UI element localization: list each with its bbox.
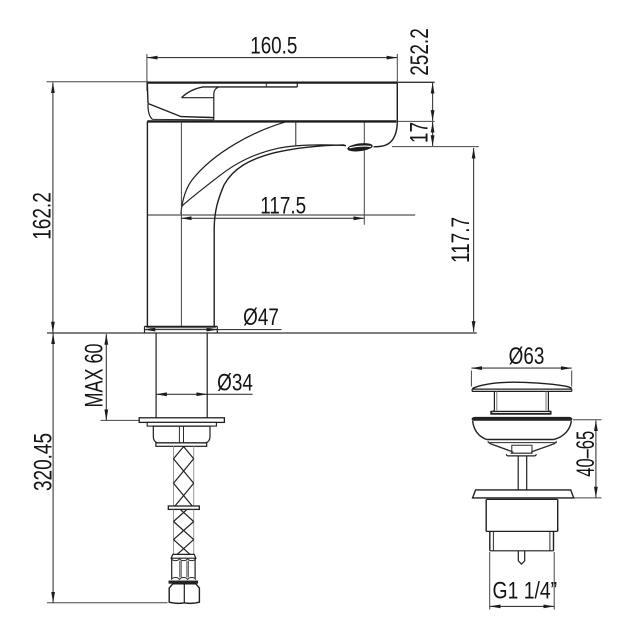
drain cap plate xyxy=(472,389,572,392)
spout curve A outer xyxy=(181,121,287,214)
drain pin xyxy=(518,551,524,564)
hose end ferrule xyxy=(169,554,197,583)
bell skirt right xyxy=(554,421,572,440)
dim G1 1/4 thread xyxy=(490,552,557,610)
cap stem xyxy=(494,391,548,410)
dim 40-65 drain range xyxy=(573,420,602,498)
thread section G1 1/4 xyxy=(490,531,554,550)
svg-text:40–65: 40–65 xyxy=(573,431,600,477)
skirt step line xyxy=(488,441,556,443)
svg-text:252.2: 252.2 xyxy=(406,28,434,76)
svg-text:Ø63: Ø63 xyxy=(509,343,545,370)
counter plane line xyxy=(47,332,477,334)
handle front edge xyxy=(146,83,149,104)
svg-text:Ø47: Ø47 xyxy=(243,304,279,331)
stem collar xyxy=(490,410,551,413)
hose clip collar xyxy=(168,506,199,509)
head bottom seam xyxy=(147,120,396,122)
dim 117.7 outlet height xyxy=(447,148,475,332)
drain stem rod xyxy=(518,456,527,490)
aerator outlet xyxy=(347,142,373,153)
svg-text:160.5: 160.5 xyxy=(250,32,297,59)
bell skirt left xyxy=(473,421,487,440)
flexible hose lower xyxy=(174,503,194,557)
svg-text:MAX 60: MAX 60 xyxy=(80,344,109,408)
svg-text:17: 17 xyxy=(405,122,433,143)
lever end edge xyxy=(296,83,298,87)
svg-text:117.5: 117.5 xyxy=(260,193,306,220)
nut collar xyxy=(156,443,207,446)
dim 160.5 top width xyxy=(147,32,398,121)
dim 117.5 spout reach xyxy=(147,122,415,225)
head top surface xyxy=(147,81,397,83)
column centerline xyxy=(180,122,182,326)
spout block seam vertical xyxy=(295,121,297,146)
dim MAX 60 deck thickness xyxy=(80,334,140,420)
handle nose diagonal xyxy=(148,104,214,118)
skirt bottom line xyxy=(487,439,554,441)
svg-text:G1 1/4”: G1 1/4” xyxy=(493,577,558,604)
drain body cylinder xyxy=(486,499,558,531)
svg-text:162.2: 162.2 xyxy=(28,192,56,240)
dim 252.2 xyxy=(398,28,435,121)
dim 17 spout lip xyxy=(392,122,479,147)
handle nose lower line xyxy=(153,118,214,121)
flexible hose upper xyxy=(174,434,194,508)
drain cap dome xyxy=(472,382,571,388)
spout curve B middle xyxy=(182,145,346,206)
mounting nut xyxy=(153,426,210,443)
dim D47 base xyxy=(145,304,282,331)
shank D34 xyxy=(156,333,207,418)
svg-text:320.45: 320.45 xyxy=(29,433,57,491)
svg-text:Ø34: Ø34 xyxy=(217,370,253,397)
hose hex nut xyxy=(169,584,199,604)
flange rim band xyxy=(472,417,572,420)
lever underside curve xyxy=(182,87,298,98)
dim 320.45 total height xyxy=(29,333,167,603)
funnel cone xyxy=(489,443,555,456)
spout right rounded corner xyxy=(374,122,398,147)
base flange D47 xyxy=(145,326,218,333)
dim D63 drain cap xyxy=(471,343,571,386)
column left edge xyxy=(146,122,148,327)
dim 162.2 left height xyxy=(28,82,148,333)
mounting washer xyxy=(139,418,224,426)
lever tick xyxy=(265,83,267,87)
handle nose arc xyxy=(148,104,153,119)
svg-text:117.7: 117.7 xyxy=(447,217,475,263)
spout curve C underside to column xyxy=(214,145,344,326)
dim D34 shank xyxy=(156,370,253,397)
head right edge xyxy=(396,83,398,122)
cartridge step top xyxy=(182,97,214,99)
cartridge step vertical xyxy=(214,87,219,120)
lower plate xyxy=(473,490,574,498)
